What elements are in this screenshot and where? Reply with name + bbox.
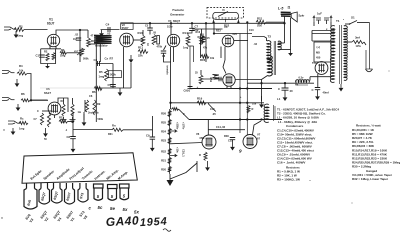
ground [61, 117, 67, 123]
speaker lead [290, 18, 292, 51]
wire [365, 50, 367, 69]
wire [312, 33, 335, 35]
long wire down [239, 34, 241, 134]
wire [68, 121, 74, 123]
ground [83, 114, 85, 122]
junction [246, 102, 248, 104]
terminal box [109, 71, 122, 78]
svg-text:1mg: 1mg [17, 34, 23, 38]
junction [349, 23, 351, 25]
svg-text:T2: T2 [268, 35, 272, 39]
junction [283, 22, 285, 24]
junction [246, 118, 248, 120]
junction [79, 29, 81, 31]
svg-text:Cx: Cx [105, 57, 109, 61]
svg-text:T1: T1 [336, 19, 340, 23]
parts list column 1 [277, 108, 339, 182]
svg-text:Rn: Rn [112, 124, 116, 128]
label box V2 6SQ7 [121, 23, 133, 30]
wire [112, 64, 114, 89]
faint pencil line [40, 87, 95, 89]
junction [191, 22, 193, 24]
svg-text:40: 40 [290, 89, 294, 93]
svg-text:+255v: +255v [176, 122, 180, 130]
svg-text:R5: R5 [99, 70, 103, 74]
wire [196, 161, 198, 172]
ground [151, 140, 153, 148]
svg-text:1954: 1954 [140, 216, 168, 229]
wire V1 plate [56, 30, 80, 35]
svg-text:C15: C15 [228, 140, 233, 143]
svg-text:6SJ7: 6SJ7 [47, 22, 55, 26]
svg-text:500k: 500k [83, 58, 89, 61]
wire cathode loop [41, 49, 56, 64]
wire [142, 30, 144, 36]
resistor R3 [87, 38, 91, 47]
junction [237, 21, 239, 23]
ground [119, 88, 121, 92]
wire rectifier cathode [317, 74, 319, 87]
T2 primary winding upper [267, 41, 271, 62]
svg-text:6.3v: 6.3v [299, 77, 304, 80]
wire [191, 23, 193, 28]
arrow up a [313, 16, 315, 22]
wire screen bus down [189, 46, 191, 89]
tube bottle V3 6V6 [24, 183, 37, 209]
wire V3 cathode [164, 46, 167, 51]
svg-text:C1: C1 [36, 54, 40, 58]
wire [230, 86, 232, 88]
svg-text:R: R [252, 107, 254, 111]
wire to T2 primary [252, 37, 267, 42]
junction [239, 102, 241, 104]
T1 core [340, 25, 342, 84]
wire diagonal to bias [170, 163, 197, 179]
ground [290, 50, 292, 53]
tube bottle V2 [39, 183, 50, 204]
svg-text:R16: R16 [200, 58, 206, 62]
heater winding [296, 80, 310, 83]
parts list column 2 [352, 124, 400, 182]
wire [96, 63, 113, 65]
svg-text:R32 = 1Meg, Linear Taper: R32 = 1Meg, Linear Taper [352, 177, 389, 181]
svg-text:M5: M5 [316, 51, 320, 55]
svg-text:115v: 115v [356, 45, 362, 48]
capacitor C9 plates [188, 87, 193, 89]
svg-text:R19: R19 [197, 97, 203, 101]
ground [284, 91, 286, 98]
svg-text:.05: .05 [153, 32, 157, 35]
wire to volume pot [67, 52, 81, 54]
resistor Rs [93, 100, 96, 115]
junction [246, 21, 248, 23]
svg-text:+x: +x [295, 83, 299, 87]
svg-text:R26: R26 [161, 112, 166, 116]
wire V1 cathode [49, 45, 51, 49]
input jack J3 mic [2, 98, 15, 101]
svg-text:C16 = .1mfd, 400WV: C16 = .1mfd, 400WV [277, 161, 305, 165]
junction [205, 22, 207, 24]
tube V1 6SJ7 [47, 34, 59, 46]
wire V6 plate to T2 [235, 79, 261, 81]
svg-text:Rc: Rc [20, 117, 24, 121]
wire [130, 63, 132, 88]
capacitor Ca [316, 18, 321, 24]
ground [70, 117, 76, 123]
svg-text:470k: 470k [157, 46, 163, 49]
junction [72, 120, 74, 122]
volume pot R4 [80, 48, 84, 56]
svg-text:vol: vol [74, 50, 78, 53]
svg-text:40mf: 40mf [323, 91, 329, 95]
wire [200, 70, 202, 75]
wire [312, 30, 335, 32]
svg-text:500k: 500k [98, 118, 104, 121]
svg-text:9: 9 [239, 149, 242, 154]
resistor R18 [199, 75, 203, 84]
svg-text:6SJ7: 6SJ7 [44, 91, 51, 95]
svg-text:C5: C5 [108, 83, 112, 87]
junction [260, 118, 262, 120]
resistor R11 [138, 50, 148, 54]
wire [226, 86, 228, 88]
wire heater [296, 80, 308, 85]
svg-text:R9: R9 [97, 102, 101, 106]
svg-text:V7: V7 [257, 133, 261, 137]
pot wiper lead [225, 19, 227, 22]
main vertical bus [170, 47, 172, 109]
tube V7a 6SN7 [202, 135, 216, 149]
ground [101, 30, 103, 33]
wire [188, 31, 192, 36]
filter cap can box [314, 42, 331, 62]
capacitor C1 [39, 55, 45, 57]
speaker lead [284, 16, 286, 43]
svg-text:R1: R1 [19, 25, 23, 29]
tube V2 6SQ7 [120, 33, 134, 47]
long wire down [246, 22, 248, 134]
svg-text:2nd instr.: 2nd instr. [87, 112, 100, 115]
svg-text:6SN: 6SN [200, 137, 205, 140]
capacitor C8b [70, 137, 76, 139]
wire V2 cathode down [123, 47, 125, 88]
wire V3 to V4 grid [192, 28, 223, 30]
wire [310, 76, 332, 78]
choke L1 winding [264, 104, 269, 122]
wire plate load [79, 30, 81, 47]
svg-text:Tremolo: Tremolo [172, 8, 184, 12]
svg-text:C10: C10 [249, 29, 254, 32]
wire to phase splitter [73, 129, 112, 131]
ground [130, 55, 132, 59]
svg-text:R23: R23 [216, 30, 221, 33]
wire [347, 41, 352, 43]
ground below T1 [340, 84, 342, 88]
wire [220, 47, 222, 59]
wire V4 plate [234, 40, 248, 42]
svg-text:R6: R6 [92, 90, 96, 94]
svg-text:R24: R24 [161, 130, 166, 134]
wire chain to V7a grid [170, 143, 203, 144]
input jack J2 [2, 71, 15, 74]
svg-text:5c: 5c [98, 205, 103, 210]
wire [309, 77, 311, 81]
svg-text:R13: R13 [59, 116, 64, 120]
wire down right [369, 23, 371, 70]
resistor R25 [168, 120, 171, 126]
wire [63, 98, 65, 104]
svg-text:R21: R21 [257, 17, 263, 21]
junction [170, 22, 172, 24]
wire R21 to speaker lead [266, 21, 285, 23]
svg-text:R25: R25 [161, 121, 166, 125]
wire [99, 44, 101, 62]
wire V4 to V6 [223, 47, 226, 74]
svg-text:V6: V6 [196, 132, 200, 136]
ground [47, 64, 49, 67]
wire to C2 [87, 30, 89, 38]
input jack J4 [8, 121, 21, 124]
wire to C5a [149, 23, 151, 27]
ground [207, 161, 209, 167]
svg-text:1mg: 1mg [183, 47, 189, 50]
svg-text:R31: R31 [108, 133, 113, 136]
resistor Ru [47, 113, 50, 127]
resistor R24 [168, 129, 171, 135]
pot arrow [218, 12, 228, 17]
T1 right winding [344, 26, 347, 59]
tube bottle 7 [108, 185, 118, 201]
junction [213, 32, 215, 34]
svg-text:R3: R3 [61, 48, 65, 52]
pot wiper arrow [77, 49, 85, 55]
arrow tap 2 [170, 154, 177, 157]
resistor R21 [256, 20, 266, 24]
wire [214, 33, 252, 35]
arrow up b [330, 16, 332, 22]
svg-text:1mg: 1mg [60, 54, 66, 58]
svg-text:GA40: GA40 [105, 213, 139, 229]
svg-text:3mf: 3mf [355, 36, 360, 40]
choke core [274, 105, 275, 121]
stray pen mark [163, 229, 171, 232]
svg-text:C14,.02: C14,.02 [216, 125, 226, 129]
resistor R3 [60, 51, 67, 54]
wire [311, 31, 313, 42]
junction [149, 22, 151, 24]
wire V5 plate [58, 98, 68, 112]
wire [188, 45, 194, 46]
svg-text:5e: 5e [110, 206, 115, 211]
ground [317, 90, 319, 96]
capacitor C2 [76, 38, 81, 40]
svg-text:1/2w: 1/2w [167, 26, 172, 29]
junction [239, 118, 241, 120]
resistor R16 [201, 55, 209, 59]
control panel outline [22, 153, 137, 183]
capacitor C12 [315, 88, 320, 90]
svg-text:+15v: +15v [176, 147, 180, 153]
bus B+ 2 [189, 119, 282, 121]
wire [278, 42, 285, 44]
pilot lamp [366, 69, 373, 72]
T2 secondary winding [278, 41, 281, 50]
wire [171, 108, 173, 110]
svg-text:R23: R23 [161, 139, 166, 143]
svg-text:R21: R21 [161, 159, 166, 163]
svg-text:5Y3: 5Y3 [312, 62, 317, 65]
svg-text:6SQ7: 6SQ7 [122, 26, 129, 30]
chain bottom arrow [167, 180, 174, 186]
wire [205, 23, 207, 62]
wire [213, 22, 215, 33]
wire [364, 42, 366, 45]
svg-text:10k: 10k [210, 57, 215, 60]
svg-text:C3: C3 [94, 58, 98, 62]
micro labels [34, 19, 362, 143]
junction [239, 87, 241, 89]
ground [17, 104, 19, 108]
switch S1 lever [350, 21, 358, 25]
capacitor C6 [147, 28, 153, 30]
svg-text:R22: R22 [161, 150, 166, 154]
wire [152, 116, 154, 137]
wire [42, 110, 52, 112]
wire [313, 22, 315, 26]
svg-text:450: 450 [316, 56, 321, 60]
foot switch pot [213, 12, 239, 19]
tube bottle 8 [120, 184, 130, 200]
svg-text:10k: 10k [257, 24, 262, 28]
resistor R5 [105, 69, 109, 81]
wire hook [253, 121, 262, 135]
svg-text:+170v: +170v [182, 122, 186, 130]
svg-text:6SQ7: 6SQ7 [173, 19, 181, 23]
wire to V5 grid [30, 99, 48, 101]
svg-text:1mg: 1mg [19, 127, 25, 131]
tube bottle 6 [94, 184, 104, 200]
svg-text:modulator: modulator [95, 44, 109, 48]
dashed control box [207, 8, 244, 18]
wire [208, 129, 245, 131]
wire [80, 29, 88, 31]
svg-text:.02: .02 [107, 32, 111, 36]
resistor Rz [204, 152, 207, 161]
resistor Rc [19, 121, 28, 124]
wire [123, 129, 153, 131]
svg-text:C8: C8 [67, 135, 71, 139]
arrow tap 1 [170, 130, 177, 133]
wire [284, 83, 286, 87]
resistor R1 [14, 28, 24, 32]
resistor R2 [46, 53, 49, 61]
resistor dropping [352, 40, 364, 43]
ground below J1 [15, 31, 17, 35]
svg-text:Ω: Ω [288, 6, 291, 10]
wire V6 grid [203, 78, 223, 80]
svg-text:10k: 10k [252, 103, 257, 106]
tube bottle V4 [52, 183, 63, 203]
wire [202, 34, 204, 37]
tube bottle V1 [65, 183, 75, 204]
resistor R33 [247, 106, 250, 114]
long wire down left bus [95, 44, 97, 122]
svg-text:C4: C4 [106, 23, 110, 27]
svg-text:.02: .02 [254, 43, 258, 46]
svg-text:47k: 47k [203, 47, 208, 50]
svg-text:*: * [343, 19, 344, 22]
svg-text:C9: C9 [146, 134, 150, 138]
bus after choke [171, 102, 265, 104]
resistor R13 [59, 120, 68, 123]
svg-text:22k: 22k [138, 54, 143, 58]
junction [30, 99, 32, 101]
tube V6 6V6 [223, 74, 235, 86]
svg-text:L1: L1 [277, 97, 281, 101]
wire [201, 29, 203, 36]
wire [83, 112, 85, 120]
svg-text:tremolo: tremolo [166, 66, 169, 76]
wire [357, 22, 370, 24]
svg-text:V4: V4 [224, 25, 228, 29]
svg-text:C2: C2 [73, 37, 77, 41]
svg-text:R7: R7 [110, 57, 114, 61]
wire [213, 19, 215, 22]
ground [16, 79, 18, 83]
wire [55, 47, 57, 49]
svg-text:R14: R14 [183, 31, 189, 35]
wire [149, 30, 151, 34]
wire [27, 74, 48, 101]
wire [84, 100, 86, 112]
wire J1 to V1 grid [24, 29, 48, 31]
junction [246, 87, 248, 89]
svg-text:C11: C11 [210, 107, 215, 111]
resistor Rp [62, 104, 65, 116]
resistor Rq [71, 104, 74, 116]
wire [170, 23, 172, 34]
ground [232, 140, 234, 147]
wire chain top diagonal [179, 109, 190, 120]
resistor R4a [17, 72, 27, 75]
tube V3 6SQ7 [167, 34, 179, 46]
resistor R17 [201, 36, 205, 44]
svg-text:R2: R2 [44, 50, 48, 54]
wire [193, 46, 195, 62]
speaker cone [291, 12, 297, 22]
capacitor C7 [189, 28, 195, 30]
capacitor Cb [324, 18, 329, 24]
wire pot bottom [79, 56, 81, 62]
B+ bus [247, 82, 314, 84]
resistor Rm [112, 128, 123, 131]
main B+ top bus [121, 22, 285, 24]
capacitor C4 [108, 27, 110, 32]
svg-text:C: C [278, 87, 280, 91]
svg-text:S1: S1 [351, 16, 355, 20]
resistor Rt [40, 113, 43, 125]
tube V7b 6SN7 [243, 135, 257, 149]
svg-text:.02: .02 [75, 34, 79, 37]
wire [237, 19, 239, 22]
resistor R21 [168, 158, 171, 164]
svg-text:R16: R16 [196, 31, 201, 34]
svg-text:1uF: 1uF [317, 12, 322, 16]
wire [72, 112, 74, 136]
resistor R15 [200, 36, 204, 45]
ground [12, 128, 14, 132]
svg-text:R: R [199, 153, 201, 157]
